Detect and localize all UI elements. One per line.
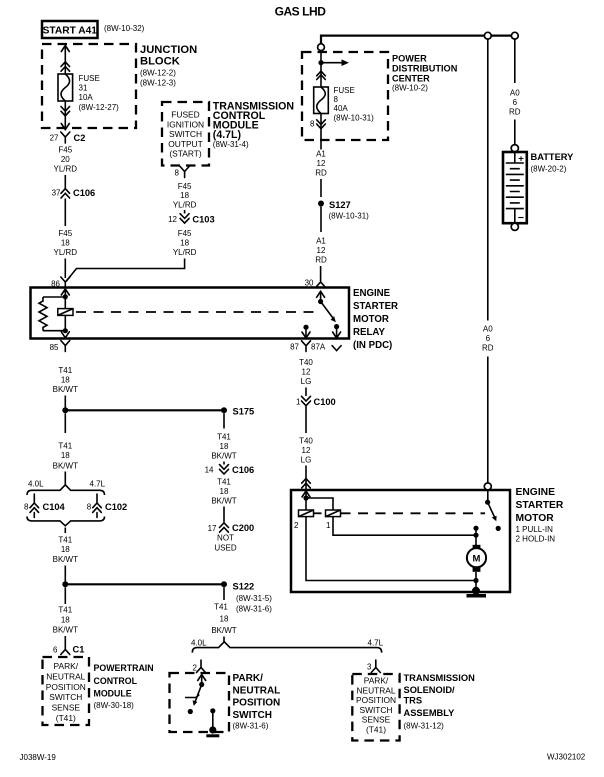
svg-text:+: + <box>518 154 524 165</box>
switch stub <box>487 490 489 500</box>
svg-text:87: 87 <box>290 343 299 352</box>
motor M <box>467 548 486 567</box>
junction dot left <box>62 407 68 413</box>
svg-text:GAS LHD: GAS LHD <box>275 5 327 19</box>
stub to C106 <box>223 462 225 465</box>
svg-text:BK/WT: BK/WT <box>53 555 78 564</box>
fuse F8 body <box>314 87 329 114</box>
ground symbol <box>467 594 487 598</box>
pin 87 exit wire <box>305 327 307 337</box>
svg-text:C2: C2 <box>74 133 86 143</box>
relay coil node top <box>63 294 68 299</box>
wire C103 branch to pin 86 <box>66 259 185 282</box>
stub below brace <box>64 528 66 534</box>
svg-text:LG: LG <box>301 456 312 465</box>
wire C100 down <box>305 406 307 433</box>
bus node circle battery branch <box>511 32 518 39</box>
hold-in coil 2 <box>299 510 314 517</box>
switch pivot node <box>485 500 490 505</box>
connector C2 fork <box>61 132 70 143</box>
svg-text:PARK/: PARK/ <box>233 673 264 684</box>
svg-text:(8W-20-2): (8W-20-2) <box>531 165 567 174</box>
battery feed wire <box>514 39 516 83</box>
svg-text:RD: RD <box>315 256 327 265</box>
svg-text:(8W-12-2): (8W-12-2) <box>140 69 176 78</box>
motor brush block top <box>473 545 481 550</box>
svg-text:POSITION: POSITION <box>233 698 281 709</box>
svg-text:JUNCTION: JUNCTION <box>140 44 197 56</box>
svg-text:LG: LG <box>301 377 312 386</box>
svg-text:12: 12 <box>302 368 311 377</box>
wire to splice junction <box>64 396 66 408</box>
svg-text:MOTOR: MOTOR <box>516 513 555 524</box>
engine starter motor box <box>291 490 510 592</box>
arrowhead up into START <box>61 46 69 52</box>
relay coil node bottom <box>63 328 68 333</box>
svg-text:M: M <box>473 554 481 565</box>
svg-text:18: 18 <box>180 191 189 200</box>
svg-text:−: − <box>518 212 524 224</box>
splice S175 <box>221 407 227 413</box>
svg-text:NEUTRAL: NEUTRAL <box>233 685 281 696</box>
svg-text:8: 8 <box>175 169 180 178</box>
svg-text:NEUTRAL: NEUTRAL <box>356 685 395 695</box>
S122 stub down <box>223 587 225 600</box>
wire down to relay pin 86 <box>64 259 66 279</box>
svg-text:T41: T41 <box>58 606 72 615</box>
svg-text:87A: 87A <box>311 343 326 352</box>
fuse F8 element <box>317 87 326 114</box>
svg-text:40A: 40A <box>334 104 349 113</box>
svg-text:C200: C200 <box>232 523 254 533</box>
svg-text:MOTOR: MOTOR <box>353 314 389 325</box>
svg-text:SWITCH: SWITCH <box>49 692 82 702</box>
wire to battery <box>514 120 516 145</box>
svg-text:4.7L: 4.7L <box>368 639 384 648</box>
wire START to fuse <box>64 46 66 75</box>
svg-text:(8W-31-4): (8W-31-4) <box>213 140 249 149</box>
pin 2 fork <box>197 660 206 673</box>
bus node circle above PDC <box>318 44 325 51</box>
svg-text:(8W-31-6): (8W-31-6) <box>236 605 272 614</box>
svg-text:F45: F45 <box>58 146 72 155</box>
svg-text:USED: USED <box>214 544 236 553</box>
motor ground wire <box>475 572 477 590</box>
svg-text:2: 2 <box>193 664 198 673</box>
svg-text:SWITCH: SWITCH <box>233 710 272 721</box>
svg-text:2 HOLD-IN: 2 HOLD-IN <box>516 535 556 544</box>
PNP ground contact node <box>210 708 215 713</box>
PNP contact node <box>188 709 193 714</box>
connector chevrons up <box>61 62 70 71</box>
pin 87A exit wire <box>336 327 338 337</box>
svg-text:YL/RD: YL/RD <box>173 201 197 210</box>
chevrons up at motor entry <box>302 479 311 488</box>
svg-text:SOLENOID/: SOLENOID/ <box>404 685 456 695</box>
svg-text:(T41): (T41) <box>56 713 76 723</box>
ground node on box edge <box>472 587 480 595</box>
svg-text:(8W-10-2): (8W-10-2) <box>392 83 428 92</box>
svg-text:T41: T41 <box>217 478 231 487</box>
pin 30 fork <box>316 277 325 287</box>
wire to C1 <box>64 636 66 645</box>
svg-text:A1: A1 <box>316 237 326 246</box>
wire C2 to C106 <box>64 175 66 188</box>
svg-text:STARTER: STARTER <box>353 301 398 312</box>
svg-text:18: 18 <box>220 487 229 496</box>
motor brush block bottom <box>473 567 481 572</box>
resistor bottom link <box>43 330 65 332</box>
svg-text:8: 8 <box>310 119 315 128</box>
svg-text:MODULE: MODULE <box>94 689 132 699</box>
park/neutral position switch dashed box <box>170 673 230 732</box>
wire to split brace <box>64 472 66 486</box>
svg-text:POWER: POWER <box>392 54 427 64</box>
motor feed wire <box>475 528 477 545</box>
junction dot left <box>62 581 68 587</box>
svg-text:OUTPUT: OUTPUT <box>168 139 202 149</box>
svg-text:NEUTRAL: NEUTRAL <box>46 671 85 681</box>
svg-text:BK/WT: BK/WT <box>53 626 78 635</box>
junction dot in PDC <box>318 60 323 65</box>
svg-text:18: 18 <box>220 442 229 451</box>
svg-text:C102: C102 <box>105 502 127 512</box>
relay common node <box>318 299 323 304</box>
junction dot motor return <box>473 578 478 583</box>
svg-text:BK/WT: BK/WT <box>53 462 78 471</box>
svg-text:17: 17 <box>208 524 217 533</box>
arrowhead up inside pin 30 <box>317 291 325 301</box>
svg-text:PARK/: PARK/ <box>364 676 389 686</box>
svg-text:RELAY: RELAY <box>353 327 385 338</box>
A0 wire continues <box>487 357 489 483</box>
svg-text:A0: A0 <box>483 325 493 334</box>
battery bottom terminal circle <box>511 223 518 230</box>
svg-text:SWITCH: SWITCH <box>169 129 202 139</box>
svg-text:T41: T41 <box>58 442 72 451</box>
svg-text:31: 31 <box>79 84 88 93</box>
wire to S127 <box>320 179 322 197</box>
coil 2 return wire <box>306 517 476 581</box>
connector C102 chevrons <box>93 494 102 518</box>
svg-text:WJ302102: WJ302102 <box>547 753 586 762</box>
connector C1 fork <box>61 645 70 655</box>
svg-text:S122: S122 <box>233 582 255 592</box>
arrowhead up inside pin 86 <box>61 289 69 297</box>
svg-text:CENTER: CENTER <box>392 74 430 84</box>
splice run to S175 <box>65 409 224 411</box>
splice S122 <box>221 581 227 587</box>
connector C106 chevrons up <box>61 189 70 198</box>
svg-text:TRANSMISSION: TRANSMISSION <box>404 673 476 683</box>
svg-text:2: 2 <box>294 521 299 530</box>
svg-text:1 PULL-IN: 1 PULL-IN <box>516 525 554 534</box>
svg-text:12: 12 <box>302 446 311 455</box>
relay coil armature symbol <box>58 309 73 316</box>
svg-text:FUSE: FUSE <box>79 74 100 83</box>
feed arrow right <box>321 62 343 64</box>
svg-text:18: 18 <box>61 239 70 248</box>
svg-text:(8W-12-27): (8W-12-27) <box>79 103 120 112</box>
pin 3 fork <box>371 660 380 673</box>
svg-text:12: 12 <box>317 159 326 168</box>
svg-text:STARTER: STARTER <box>516 500 564 511</box>
svg-text:C106: C106 <box>232 465 254 475</box>
svg-text:DISTRIBUTION: DISTRIBUTION <box>392 64 458 74</box>
wire below junction <box>64 413 66 433</box>
svg-text:(8W-12-3): (8W-12-3) <box>140 79 176 88</box>
svg-text:3: 3 <box>367 663 372 672</box>
svg-text:POSITION: POSITION <box>356 695 396 705</box>
PNP common node <box>199 682 204 687</box>
svg-text:(START): (START) <box>169 149 201 159</box>
wire fuse down exits PDC <box>320 114 322 150</box>
wire to C100 <box>305 388 307 397</box>
svg-text:T41: T41 <box>217 433 231 442</box>
transmission control module dashed box <box>162 102 209 166</box>
svg-text:C1: C1 <box>73 645 85 655</box>
relay contact 87A node <box>334 324 339 329</box>
wire circle to fuse <box>320 51 322 87</box>
svg-text:12: 12 <box>168 215 177 224</box>
battery top terminal circle <box>511 145 518 152</box>
svg-text:SENSE: SENSE <box>362 715 391 725</box>
svg-text:YL/RD: YL/RD <box>173 248 197 257</box>
PNP ground node on box edge <box>209 726 216 733</box>
relay contact 87 node <box>303 325 308 330</box>
connector C100 chevrons down <box>302 396 311 405</box>
bus node circle A0 branch <box>484 32 491 39</box>
arrowhead down at JB exit <box>61 124 69 130</box>
split brace top <box>27 485 105 495</box>
svg-text:(8W-31-12): (8W-31-12) <box>404 722 445 731</box>
fuse F31 body <box>58 74 73 101</box>
entry arrow inside <box>302 491 310 498</box>
svg-text:F45: F45 <box>178 229 192 238</box>
svg-text:85: 85 <box>50 343 59 352</box>
svg-text:SWITCH: SWITCH <box>359 705 392 715</box>
svg-text:A1: A1 <box>316 150 326 159</box>
svg-text:C100: C100 <box>314 397 336 407</box>
svg-text:(8W-30-18): (8W-30-18) <box>94 701 135 710</box>
svg-text:8: 8 <box>334 95 339 104</box>
svg-text:18: 18 <box>61 451 70 460</box>
relay coil wire <box>64 297 66 331</box>
svg-text:F45: F45 <box>178 182 192 191</box>
motor terminal node upper <box>473 526 478 531</box>
svg-text:BK/WT: BK/WT <box>211 452 236 461</box>
svg-text:ENGINE: ENGINE <box>516 487 556 498</box>
svg-text:T41: T41 <box>214 603 228 612</box>
battery plates <box>506 163 524 209</box>
resistor across coil <box>39 297 47 331</box>
svg-text:T41: T41 <box>58 536 72 545</box>
svg-text:(8W-10-32): (8W-10-32) <box>104 24 145 33</box>
S175 wire down <box>223 413 225 428</box>
relay switch blade <box>321 302 334 319</box>
svg-text:F45: F45 <box>58 229 72 238</box>
svg-text:BK/WT: BK/WT <box>211 626 236 635</box>
switch blade <box>488 502 495 517</box>
svg-text:RD: RD <box>315 169 327 178</box>
svg-text:C106: C106 <box>73 188 95 198</box>
relay linkage dashed <box>76 311 318 313</box>
svg-text:18: 18 <box>61 545 70 554</box>
switch contact node <box>496 526 501 531</box>
entry node <box>303 495 308 500</box>
svg-text:BLOCK: BLOCK <box>140 56 180 68</box>
splice run to S122 <box>65 583 224 585</box>
svg-text:18: 18 <box>180 239 189 248</box>
svg-text:4.7L: 4.7L <box>90 480 106 489</box>
svg-text:1: 1 <box>296 398 301 407</box>
svg-text:1: 1 <box>326 521 331 530</box>
arrowhead down to pin 85 <box>61 332 69 338</box>
svg-text:TRS: TRS <box>404 696 423 706</box>
connector C103 chevrons down <box>180 214 189 223</box>
long A0 wire to starter <box>487 39 489 320</box>
svg-text:PARK/: PARK/ <box>54 661 79 671</box>
svg-text:(8W-31-6): (8W-31-6) <box>233 722 269 731</box>
wire to engine split <box>223 637 225 643</box>
wire below left junction <box>64 587 66 604</box>
svg-text:NOT: NOT <box>217 534 234 543</box>
svg-text:C104: C104 <box>43 502 66 512</box>
svg-text:POSITION: POSITION <box>46 682 86 692</box>
svg-text:8: 8 <box>87 503 92 512</box>
splice S127 <box>318 201 324 207</box>
svg-text:8: 8 <box>24 503 29 512</box>
pin 85 fork <box>61 341 70 352</box>
wire fuse to C2 <box>64 101 66 128</box>
fuse F31 element <box>61 74 70 101</box>
transmission solenoid dashed box <box>352 674 399 741</box>
powertrain control module dashed box <box>43 657 90 725</box>
svg-text:4.0L: 4.0L <box>191 639 207 648</box>
engine starter motor relay box <box>31 288 350 339</box>
svg-text:(8W-31-5): (8W-31-5) <box>236 594 272 603</box>
power distribution center dashed box <box>302 52 388 140</box>
svg-text:6: 6 <box>53 646 58 655</box>
svg-text:14: 14 <box>205 466 214 475</box>
svg-text:ASSEMBLY: ASSEMBLY <box>404 708 456 718</box>
svg-text:12: 12 <box>317 246 326 255</box>
svg-text:(IN PDC): (IN PDC) <box>353 340 392 351</box>
svg-text:(T41): (T41) <box>366 725 386 735</box>
wire to relay pin 30 <box>320 266 322 277</box>
split brace 4.0L/4.7L <box>192 642 381 653</box>
svg-text:YL/RD: YL/RD <box>54 248 78 257</box>
svg-text:J038W-19: J038W-19 <box>20 753 57 762</box>
svg-text:BK/WT: BK/WT <box>53 385 78 394</box>
battery internal terminal <box>514 152 516 163</box>
svg-text:18: 18 <box>220 615 229 624</box>
svg-text:RD: RD <box>509 108 521 117</box>
linkage dashed to switch <box>341 512 486 514</box>
pull-in coil 1 <box>326 510 341 517</box>
svg-text:(8W-10-31): (8W-10-31) <box>329 212 370 221</box>
connector C106 chevrons down <box>220 465 229 474</box>
svg-text:27: 27 <box>50 134 59 143</box>
svg-text:T41: T41 <box>58 366 72 375</box>
bus wire from PDC to battery <box>321 36 515 44</box>
svg-text:30: 30 <box>305 279 314 288</box>
ground symbol <box>206 734 219 737</box>
wire to pull-in coil <box>306 498 333 510</box>
PNP ground wire <box>212 711 214 729</box>
svg-text:S175: S175 <box>233 407 255 417</box>
svg-text:18: 18 <box>61 376 70 385</box>
chevrons up above fuse 8 <box>317 71 326 79</box>
START A41 source box <box>42 21 98 38</box>
svg-text:CONTROL: CONTROL <box>94 676 138 686</box>
battery bottom stub <box>514 209 516 223</box>
junction block dashed box <box>42 44 136 128</box>
connector C104 chevrons <box>30 494 39 518</box>
svg-text:BK/WT: BK/WT <box>211 497 236 506</box>
svg-text:18: 18 <box>61 616 70 625</box>
battery body <box>503 152 527 223</box>
svg-text:S127: S127 <box>329 200 351 210</box>
svg-text:A0: A0 <box>510 89 520 98</box>
wire S127 down <box>320 207 322 233</box>
svg-text:BATTERY: BATTERY <box>531 152 575 162</box>
svg-text:ENGINE: ENGINE <box>353 288 391 299</box>
chevrons down below fuse <box>317 120 326 129</box>
PNP entry arrow <box>198 675 206 685</box>
PNP switch blade <box>195 685 202 703</box>
svg-text:YL/RD: YL/RD <box>54 165 78 174</box>
svg-text:RD: RD <box>482 344 494 353</box>
svg-text:FUSED: FUSED <box>171 110 199 120</box>
svg-text:FUSE: FUSE <box>334 86 355 95</box>
wire TCM to C103 <box>184 210 186 214</box>
svg-text:6: 6 <box>486 334 491 343</box>
motor terminal node <box>473 533 478 538</box>
stub to C200 <box>223 507 225 523</box>
wire to S122 junction <box>64 566 66 582</box>
svg-text:POWERTRAIN: POWERTRAIN <box>94 663 154 673</box>
svg-text:START A41: START A41 <box>43 26 98 37</box>
linkage dash between coils <box>314 512 326 514</box>
pin 87A chevron <box>332 346 341 351</box>
wire C106 down <box>64 199 66 227</box>
svg-text:T40: T40 <box>299 358 313 367</box>
solenoid switch terminal circle <box>484 483 491 490</box>
svg-text:10A: 10A <box>79 93 94 102</box>
svg-text:T40: T40 <box>299 437 313 446</box>
resistor top link <box>43 296 65 298</box>
pin 86 fork <box>61 277 70 288</box>
svg-text:6: 6 <box>513 98 518 107</box>
pin 87 fork <box>302 341 311 352</box>
connector C200 chevrons up <box>220 523 229 532</box>
wire to hold-in coil <box>305 498 307 510</box>
svg-text:37: 37 <box>52 189 61 198</box>
svg-text:20: 20 <box>61 155 70 164</box>
PNP throw contact <box>185 695 199 698</box>
connector chevrons down <box>61 107 70 116</box>
svg-text:SENSE: SENSE <box>52 703 81 713</box>
svg-text:(8W-10-31): (8W-10-31) <box>334 113 375 122</box>
svg-text:IGNITION: IGNITION <box>167 119 204 129</box>
svg-text:C103: C103 <box>192 215 214 225</box>
wire to starter motor <box>305 466 307 490</box>
coil 1 wire to motor <box>333 517 476 536</box>
svg-text:4.0L: 4.0L <box>28 480 44 489</box>
split brace bottom <box>27 517 105 526</box>
pin 8 fork <box>180 167 189 178</box>
